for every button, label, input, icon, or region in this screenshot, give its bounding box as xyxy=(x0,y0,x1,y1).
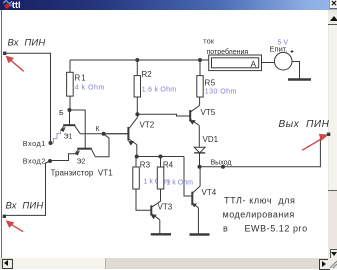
svg-text:Э1: Э1 xyxy=(64,134,73,141)
svg-text:R3: R3 xyxy=(140,161,151,170)
horizontal scrollbar thumb xyxy=(13,258,106,269)
node R2 bottom xyxy=(135,112,139,116)
svg-text:Вход2: Вход2 xyxy=(23,156,46,165)
svg-text:Вход1: Вход1 xyxy=(23,139,46,148)
svg-text:VT4: VT4 xyxy=(202,188,217,197)
svg-text:VT3: VT3 xyxy=(158,203,173,212)
svg-text:Выход: Выход xyxy=(211,160,232,167)
svg-text:VT2: VT2 xyxy=(140,121,155,130)
wire battery to ground xyxy=(292,62,300,79)
wire emitter E1 to input1 node xyxy=(51,130,61,143)
node output pin (right terminal) xyxy=(327,133,330,136)
red cursor arrow (top left) xyxy=(6,56,24,71)
svg-text:R2: R2 xyxy=(142,70,153,79)
svg-text:A: A xyxy=(251,59,257,69)
wire ammeter to battery xyxy=(262,62,275,64)
size grip corner xyxy=(328,258,337,269)
vertical scrollbar thumb xyxy=(329,24,337,190)
resistor R3 xyxy=(133,157,170,211)
svg-text:К: К xyxy=(96,126,101,133)
svg-text:потребления: потребления xyxy=(207,48,249,56)
node input 2 xyxy=(48,159,52,163)
transistor VT1 lower half xyxy=(75,149,95,157)
svg-text:в: в xyxy=(223,224,228,234)
transistor VT1 upper half xyxy=(61,125,81,134)
svg-text:Э2: Э2 xyxy=(77,159,86,166)
node output junction xyxy=(221,165,225,169)
scrollbar right button xyxy=(319,259,330,270)
red cursor arrow (output) xyxy=(302,134,327,150)
wire input pin 2 xyxy=(5,161,50,215)
svg-text:VD1: VD1 xyxy=(203,135,219,144)
horizontal scrollbar track xyxy=(0,258,329,269)
ground (VT4) xyxy=(190,233,210,235)
svg-text:1.6 k Ohm: 1.6 k Ohm xyxy=(142,87,177,94)
wire VT1 collector to node K xyxy=(95,134,109,157)
node rail R2 xyxy=(135,58,139,62)
wire VT2 collector node to VT5 base xyxy=(138,114,191,116)
wire emitter rail to VT4 base xyxy=(184,157,192,197)
output wire xyxy=(200,135,328,167)
VCC rail wire (top) xyxy=(70,59,209,61)
battery E 5V xyxy=(270,40,294,71)
ammeter A xyxy=(203,39,261,71)
node input 1 xyxy=(49,141,53,145)
close button xyxy=(329,0,337,9)
window title text xyxy=(12,0,21,10)
svg-text:4 k Ohm: 4 k Ohm xyxy=(75,85,105,92)
svg-text:VT5: VT5 xyxy=(201,108,216,117)
vertical scrollbar track xyxy=(328,10,337,258)
resistor R4 xyxy=(157,157,193,202)
emitter rail of VT2 xyxy=(137,156,184,158)
svg-text:R5: R5 xyxy=(205,79,216,88)
resistor R1 xyxy=(67,60,105,110)
wire B down to upper base of VT1 xyxy=(69,110,71,125)
svg-text:R4: R4 xyxy=(163,161,174,170)
diode VD1 xyxy=(194,125,218,167)
transistor VT3 xyxy=(151,201,173,233)
node input pin 1 (top left terminal) xyxy=(3,52,6,55)
transistor VT5 xyxy=(190,105,216,125)
svg-text:1 k Ohm: 1 k Ohm xyxy=(167,180,194,187)
node VD1 output xyxy=(198,165,202,169)
svg-text:5 V: 5 V xyxy=(278,40,289,47)
node rail R5 xyxy=(198,58,202,62)
node K xyxy=(102,132,106,136)
svg-text:ТТЛ- ключ для: ТТЛ- ключ для xyxy=(224,196,296,206)
svg-text:Вх ПИН: Вх ПИН xyxy=(8,38,46,49)
svg-text:моделирования: моделирования xyxy=(223,210,295,220)
wire B to lower base of VT1 xyxy=(70,110,86,149)
resistor R5 xyxy=(197,60,237,105)
svg-text:Вых ПИН: Вых ПИН xyxy=(279,119,330,130)
left window border xyxy=(1,10,2,258)
window title bar xyxy=(0,0,337,10)
svg-text:EWB-5.12 pro: EWB-5.12 pro xyxy=(245,224,308,234)
ground (VT3) xyxy=(151,233,171,235)
scrollbar down button xyxy=(330,249,337,259)
window icon xyxy=(2,0,13,10)
resistor R2 xyxy=(134,60,176,114)
svg-text:Транзистор VT1: Транзистор VT1 xyxy=(51,169,114,178)
svg-text:130 Ohm: 130 Ohm xyxy=(205,89,237,96)
red cursor arrow (bottom left) xyxy=(6,221,23,232)
transistor VT4 xyxy=(192,167,217,234)
svg-text:R1: R1 xyxy=(75,74,87,83)
svg-text:ток: ток xyxy=(203,39,215,46)
svg-text:Б: Б xyxy=(59,110,64,117)
wire input1 pin to VT1 emitter column xyxy=(6,53,51,143)
node B (base of VT1) xyxy=(68,108,72,112)
svg-text:Вх ПИН: Вх ПИН xyxy=(6,201,44,212)
node R4 top xyxy=(159,155,163,159)
scrollbar left button xyxy=(2,259,13,270)
transistor VT2 xyxy=(104,114,155,156)
ground (battery) xyxy=(288,78,311,80)
wire emitter E2 to input2 node xyxy=(50,154,75,161)
node R3 top xyxy=(135,155,139,159)
node input pin 2 (bottom left terminal) xyxy=(3,215,6,218)
scrollbar up button xyxy=(328,13,337,25)
